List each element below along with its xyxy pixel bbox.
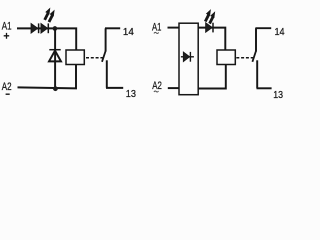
LED arrow 2 (right) bbox=[209, 12, 215, 24]
plus mark under A1 bbox=[4, 33, 10, 39]
svg-text:13: 13 bbox=[273, 89, 283, 101]
contact 13 terminal tick (right) bbox=[257, 87, 272, 89]
svg-text:A1: A1 bbox=[2, 21, 12, 33]
svg-text:14: 14 bbox=[123, 26, 134, 38]
diode D1 (series polarity diode) bbox=[31, 23, 38, 33]
label 13 (right) bbox=[273, 89, 283, 101]
contact blade (right) bbox=[252, 51, 256, 62]
label 14 bbox=[123, 26, 134, 38]
contact 14 terminal tick bbox=[105, 27, 120, 29]
contact blade bbox=[102, 51, 106, 62]
LED arrow 2 bbox=[48, 10, 54, 22]
rectifier diode lead bbox=[181, 56, 194, 58]
terminal label A2 bbox=[2, 81, 12, 93]
terminal label A1 (right) bbox=[152, 22, 161, 34]
label 14 (right) bbox=[275, 26, 285, 38]
minus mark under A2 bbox=[6, 93, 10, 95]
contact 13 terminal tick bbox=[106, 87, 123, 89]
LED arrow 1 bbox=[44, 8, 50, 20]
LED D3 bbox=[206, 23, 213, 33]
rectifier diode (inside box) bbox=[183, 52, 189, 62]
tilde under A1 bbox=[154, 32, 159, 33]
svg-text:A1: A1 bbox=[152, 22, 161, 34]
LED arrow 1 (right) bbox=[204, 10, 210, 22]
terminal label A2 (right) bbox=[152, 80, 162, 92]
actuator dashed link (right coil to contact) bbox=[236, 57, 254, 59]
svg-text:13: 13 bbox=[126, 88, 136, 100]
contact 14 terminal tick (right) bbox=[255, 27, 271, 29]
contact top terminal (right) bbox=[255, 28, 257, 51]
contact bottom terminal bbox=[106, 60, 108, 88]
freewheel diode V1 (outline, pointing up) bbox=[49, 51, 61, 62]
label 13 bbox=[126, 88, 136, 100]
wire: box to coil branch corner, down to coil top bbox=[198, 28, 225, 50]
wire: coil bottom down and left to A2 bbox=[18, 65, 77, 89]
actuator dashed link (coil to contact) bbox=[86, 57, 104, 59]
wire: coil bottom down and left to box bbox=[198, 65, 226, 89]
node dot (top junction) bbox=[53, 26, 58, 31]
wire: freewheel branch vertical bbox=[54, 29, 56, 89]
wire: A2 to rectifier box bbox=[168, 87, 179, 89]
wire: A1 to rectifier box bbox=[168, 27, 179, 29]
svg-text:A2: A2 bbox=[152, 80, 162, 92]
terminal label A1 bbox=[2, 21, 12, 33]
rectifier box U1 bbox=[179, 23, 198, 95]
node dot (bottom junction) bbox=[53, 86, 58, 91]
relay coil K2 bbox=[217, 50, 235, 65]
tilde under A2 (right) bbox=[154, 91, 159, 92]
svg-text:14: 14 bbox=[275, 26, 285, 38]
wire: A1 to coil branch corner, down to coil top bbox=[17, 28, 76, 50]
relay coil K1 bbox=[66, 50, 84, 65]
contact bottom terminal (right) bbox=[256, 60, 258, 88]
LED D2 bbox=[41, 23, 48, 33]
contact top terminal bbox=[105, 28, 107, 51]
svg-text:A2: A2 bbox=[2, 81, 12, 93]
